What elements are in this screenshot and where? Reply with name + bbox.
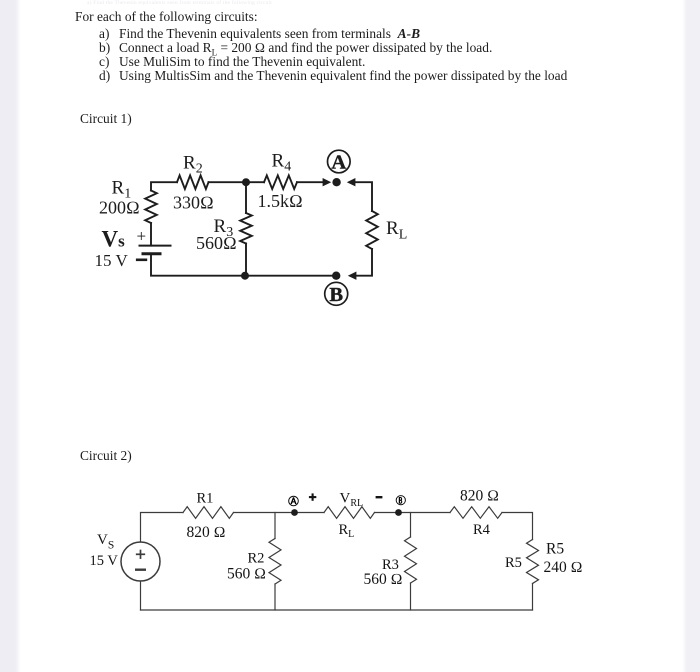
wire: bottom rail	[141, 609, 533, 611]
svg-text:RL: RL	[339, 522, 355, 540]
label R4	[272, 151, 292, 175]
svg-text:R5: R5	[546, 540, 564, 557]
source plus sign	[137, 551, 145, 559]
label R5 left (circuit 2)	[505, 555, 522, 571]
circuit 1 network	[140, 175, 378, 280]
svg-text:15 V: 15 V	[95, 251, 129, 270]
resistor R4 (1.5k ohm, horizontal top)	[264, 175, 297, 189]
header line 1	[75, 10, 258, 23]
svg-text:VRL: VRL	[340, 491, 364, 510]
node A dot (circuit 2)	[291, 509, 298, 516]
node B dot	[332, 272, 340, 280]
resistor R5 (240 ohm, vertical right)	[527, 540, 539, 584]
wire: node B to middle bottom junction	[245, 275, 332, 277]
wire: C2 top-left segment source to R1	[141, 513, 184, 543]
caption Circuit 2	[80, 449, 132, 462]
terminal B circled label (circuit 2)	[396, 496, 405, 505]
label source value 15 V	[95, 251, 129, 270]
label source value 15 V (circuit 2)	[90, 553, 119, 569]
header item b	[99, 41, 110, 54]
label R4 value 1.5k ohm	[258, 191, 303, 211]
resistor R4 (820 ohm, horizontal)	[450, 507, 502, 519]
svg-text:560Ω: 560Ω	[196, 233, 237, 253]
wire: middle branch from top junction to R3	[245, 182, 247, 213]
label R3 (circuit 2)	[382, 557, 399, 573]
svg-text:+: +	[137, 227, 147, 246]
right gray page margin strip	[681, 0, 700, 672]
label plus sign of VRL	[309, 493, 316, 500]
svg-text:240 Ω: 240 Ω	[544, 559, 583, 576]
label minus sign of VRL	[376, 496, 383, 498]
label battery minus sign	[136, 258, 147, 261]
label R2 value 330 ohm	[173, 193, 214, 213]
node A dot	[332, 178, 340, 186]
resistor R3 (560 ohm, vertical middle)	[240, 213, 252, 244]
resistor RL (load, vertical right)	[366, 211, 378, 249]
voltage source Vs circle	[121, 542, 160, 581]
wire: top junction to R4 left	[246, 181, 264, 183]
label R3 value 560 ohm	[196, 233, 237, 253]
resistor R1 (820 ohm, horizontal)	[183, 507, 234, 519]
resistor R3 (560 ohm, vertical)	[405, 537, 417, 583]
svg-text:B: B	[329, 284, 343, 306]
svg-text:200Ω: 200Ω	[99, 198, 140, 218]
resistor R2 (330 ohm, horizontal top)	[177, 175, 209, 189]
wire: C1 top-left corner (R1 top to R2 left)	[151, 182, 177, 190]
wire: R5 bottom to bottom-right corner	[532, 584, 534, 611]
wire: R2 bottom lead	[274, 584, 276, 610]
wire: right branch top with left-pointing arrow into node A	[347, 178, 372, 211]
battery Vs plates	[140, 246, 171, 254]
label R2	[183, 153, 203, 177]
svg-text:VS: VS	[97, 532, 114, 551]
label R1 value 200 ohm	[99, 198, 140, 218]
label R2 (circuit 2)	[248, 550, 265, 566]
svg-text:R2: R2	[248, 550, 265, 566]
label R2 value 560 ohm	[227, 566, 266, 583]
resistor R2 (560 ohm, vertical)	[269, 539, 281, 585]
terminal A circled label (circuit 2)	[289, 496, 299, 506]
label R5 value 240 ohm	[544, 559, 583, 576]
label R3	[214, 216, 234, 240]
label R1 value 820 ohm	[187, 524, 226, 541]
wire: R3 bottom to bottom junction	[245, 244, 247, 276]
wire: R4 right to top-right corner down to R5	[502, 513, 533, 540]
wire: R1 bottom to battery + plate	[150, 223, 152, 246]
circuit 2 network	[121, 507, 539, 610]
svg-text:R4: R4	[272, 151, 292, 175]
header item d	[99, 69, 110, 82]
caption Circuit 1	[80, 112, 132, 125]
label battery plus sign	[137, 227, 147, 246]
label R5 right (circuit 2)	[546, 540, 564, 557]
label R4 (circuit 2)	[473, 522, 491, 538]
wire: R2 right to top junction	[209, 181, 247, 183]
svg-text:560 Ω: 560 Ω	[227, 566, 266, 583]
wire: R1 right through R2 junction to RL left	[234, 512, 325, 514]
svg-text:R2: R2	[183, 153, 203, 177]
wire: RL right through R3 junction to R4 left	[375, 512, 451, 514]
svg-text:560 Ω: 560 Ω	[364, 571, 403, 588]
label RL	[386, 218, 407, 243]
svg-text:820 Ω: 820 Ω	[460, 488, 499, 505]
svg-text:A: A	[331, 152, 346, 174]
svg-text:RL: RL	[386, 218, 407, 243]
header item c	[99, 55, 109, 68]
label R4 value 820 ohm	[460, 488, 499, 505]
terminal B circled label	[325, 282, 348, 306]
label R3 value 560 ohm	[364, 571, 403, 588]
resistor R1 (200 ohm, vertical left)	[145, 191, 157, 224]
node: bottom junction dot	[241, 272, 249, 280]
wire: R4 right toward node A with right-pointing arrow	[297, 178, 331, 186]
left gray page margin strip	[0, 0, 22, 672]
label R1 (circuit 2)	[197, 490, 214, 506]
wire: R3 bottom lead	[410, 583, 412, 610]
label R1	[112, 178, 132, 202]
svg-text:R1: R1	[197, 490, 214, 506]
label Vs	[102, 227, 126, 252]
label VRL	[340, 491, 364, 510]
label RL (circuit 2)	[339, 522, 355, 540]
svg-text:Vs: Vs	[102, 227, 126, 252]
header item a	[99, 27, 109, 40]
wire: source bottom to bottom-left corner	[140, 581, 142, 610]
svg-text:820 Ω: 820 Ω	[187, 524, 226, 541]
wire: battery - plate down to bottom-left corner then right to middle junction	[151, 254, 245, 276]
svg-text:15 V: 15 V	[90, 553, 119, 569]
wire: R3 branch top lead	[410, 513, 412, 538]
faint ghost text at cut-off top edge	[87, 1, 272, 7]
source minus sign	[136, 569, 145, 571]
wire: R2 branch top lead	[274, 513, 276, 539]
terminal A circled label	[328, 150, 351, 174]
node B dot (circuit 2)	[395, 509, 402, 516]
svg-text:R4: R4	[473, 522, 491, 538]
wire: RL bottom to bottom-right corner with left-pointing arrow into node B	[348, 249, 372, 280]
svg-text:1.5kΩ: 1.5kΩ	[258, 191, 303, 211]
label Vs (circuit 2)	[97, 532, 114, 551]
node: top junction dot	[242, 178, 250, 186]
resistor RL (load, horizontal)	[324, 507, 375, 519]
svg-text:330Ω: 330Ω	[173, 193, 214, 213]
svg-text:R5: R5	[505, 555, 522, 571]
